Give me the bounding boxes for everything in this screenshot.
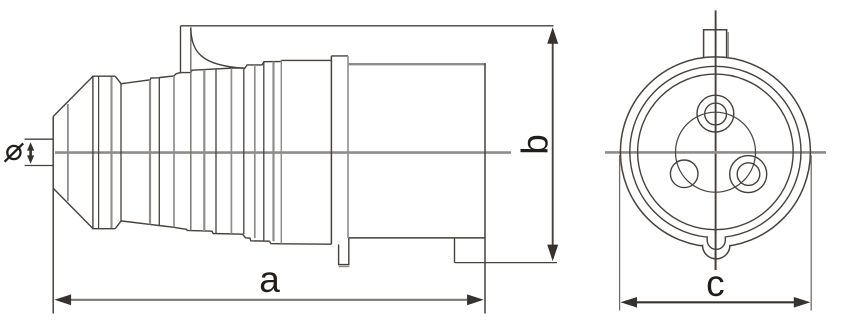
keyway notch inner: [707, 236, 725, 249]
dia arrow down: [27, 155, 34, 163]
dim a arrow right: [467, 294, 484, 305]
keyway erase patch middle arc: [707, 233, 726, 242]
grip rib 6: [203, 70, 205, 231]
inner face circle: [638, 74, 794, 230]
dim dia lower line: [25, 165, 54, 167]
grip rib 13: [280, 61, 282, 244]
extension line b top: [181, 25, 554, 27]
extension line c right: [810, 155, 812, 311]
keyway notch outer: [703, 245, 730, 259]
dim b arrow bottom: [547, 245, 558, 262]
dia symbol circle: [7, 146, 20, 159]
pin left: [670, 160, 698, 188]
vertical centerline front view: [715, 10, 717, 270]
grip rib 11: [263, 62, 265, 241]
dim c arrow right: [794, 297, 811, 308]
svg-text:b: b: [515, 134, 556, 155]
grip rib 4: [173, 76, 175, 227]
cable gland nose cone top edge: [53, 76, 93, 116]
vertical centerline through keyway: [715, 228, 717, 270]
dim c line: [633, 301, 798, 303]
hood fillet curve: [191, 28, 245, 68]
flange top edge: [331, 55, 348, 57]
cable gland nose cone bottom edge: [53, 188, 93, 228]
grip rib 9: [243, 68, 245, 234]
horizontal centerline front view: [605, 151, 826, 154]
grip rib 8: [230, 68, 232, 234]
gland collar left edge: [92, 76, 94, 229]
grip rib 12: [272, 62, 274, 242]
hood lip vertical: [180, 26, 182, 74]
top tab left edge: [703, 30, 705, 58]
pin right inner: [737, 163, 760, 186]
grip top outline: [115, 60, 331, 83]
dia arrow up: [27, 142, 34, 150]
grip bottom outline: [115, 221, 331, 244]
pitch circle: [676, 112, 756, 192]
outer circle: [620, 57, 810, 247]
pin right outer: [730, 156, 767, 193]
centerline side view: [55, 151, 511, 154]
pin top inner: [705, 103, 727, 125]
flange right edge: [347, 56, 349, 238]
top tab right edge: [726, 30, 728, 58]
dim c arrow left: [620, 297, 637, 308]
body bottom edge: [349, 237, 485, 239]
collar bottom edge: [92, 228, 115, 230]
collar top edge: [92, 75, 115, 77]
flange left edge: [330, 56, 332, 244]
grip rib 5 tall: [190, 27, 192, 230]
grip rib 10: [254, 65, 256, 238]
pin top outer: [697, 95, 734, 132]
dim a line: [66, 299, 473, 301]
gland collar rib: [98, 76, 100, 229]
grip rib 2: [149, 80, 151, 225]
top tab shadow: [727, 32, 729, 57]
tab shadow: [339, 266, 350, 268]
grip rib 3: [158, 78, 160, 226]
dim a arrow left: [55, 294, 72, 305]
body top edge: [348, 63, 486, 65]
flange bottom tab: [339, 238, 349, 265]
nose cone rib: [67, 104, 69, 201]
step bottom + extension line b bottom: [455, 262, 558, 264]
svg-text:a: a: [259, 259, 280, 300]
dia symbol slash: [5, 143, 24, 161]
dim b line: [552, 42, 554, 247]
middle circle: [630, 66, 801, 237]
body front step: [454, 238, 456, 263]
extension line c left: [619, 155, 621, 311]
grip rib 7: [215, 69, 217, 233]
body right edge + extension line a right: [484, 63, 486, 313]
gland collar right edge: [110, 76, 112, 229]
dia arrow shaft: [29, 149, 32, 157]
top tab top edge: [703, 29, 728, 31]
dim b arrow top: [547, 27, 558, 44]
extension line a left / nose left edge: [52, 117, 54, 314]
keyway erase patch outer arc: [702, 242, 731, 251]
dim dia upper line: [25, 138, 54, 140]
grip rib 1: [120, 84, 122, 221]
svg-text:c: c: [706, 263, 725, 304]
